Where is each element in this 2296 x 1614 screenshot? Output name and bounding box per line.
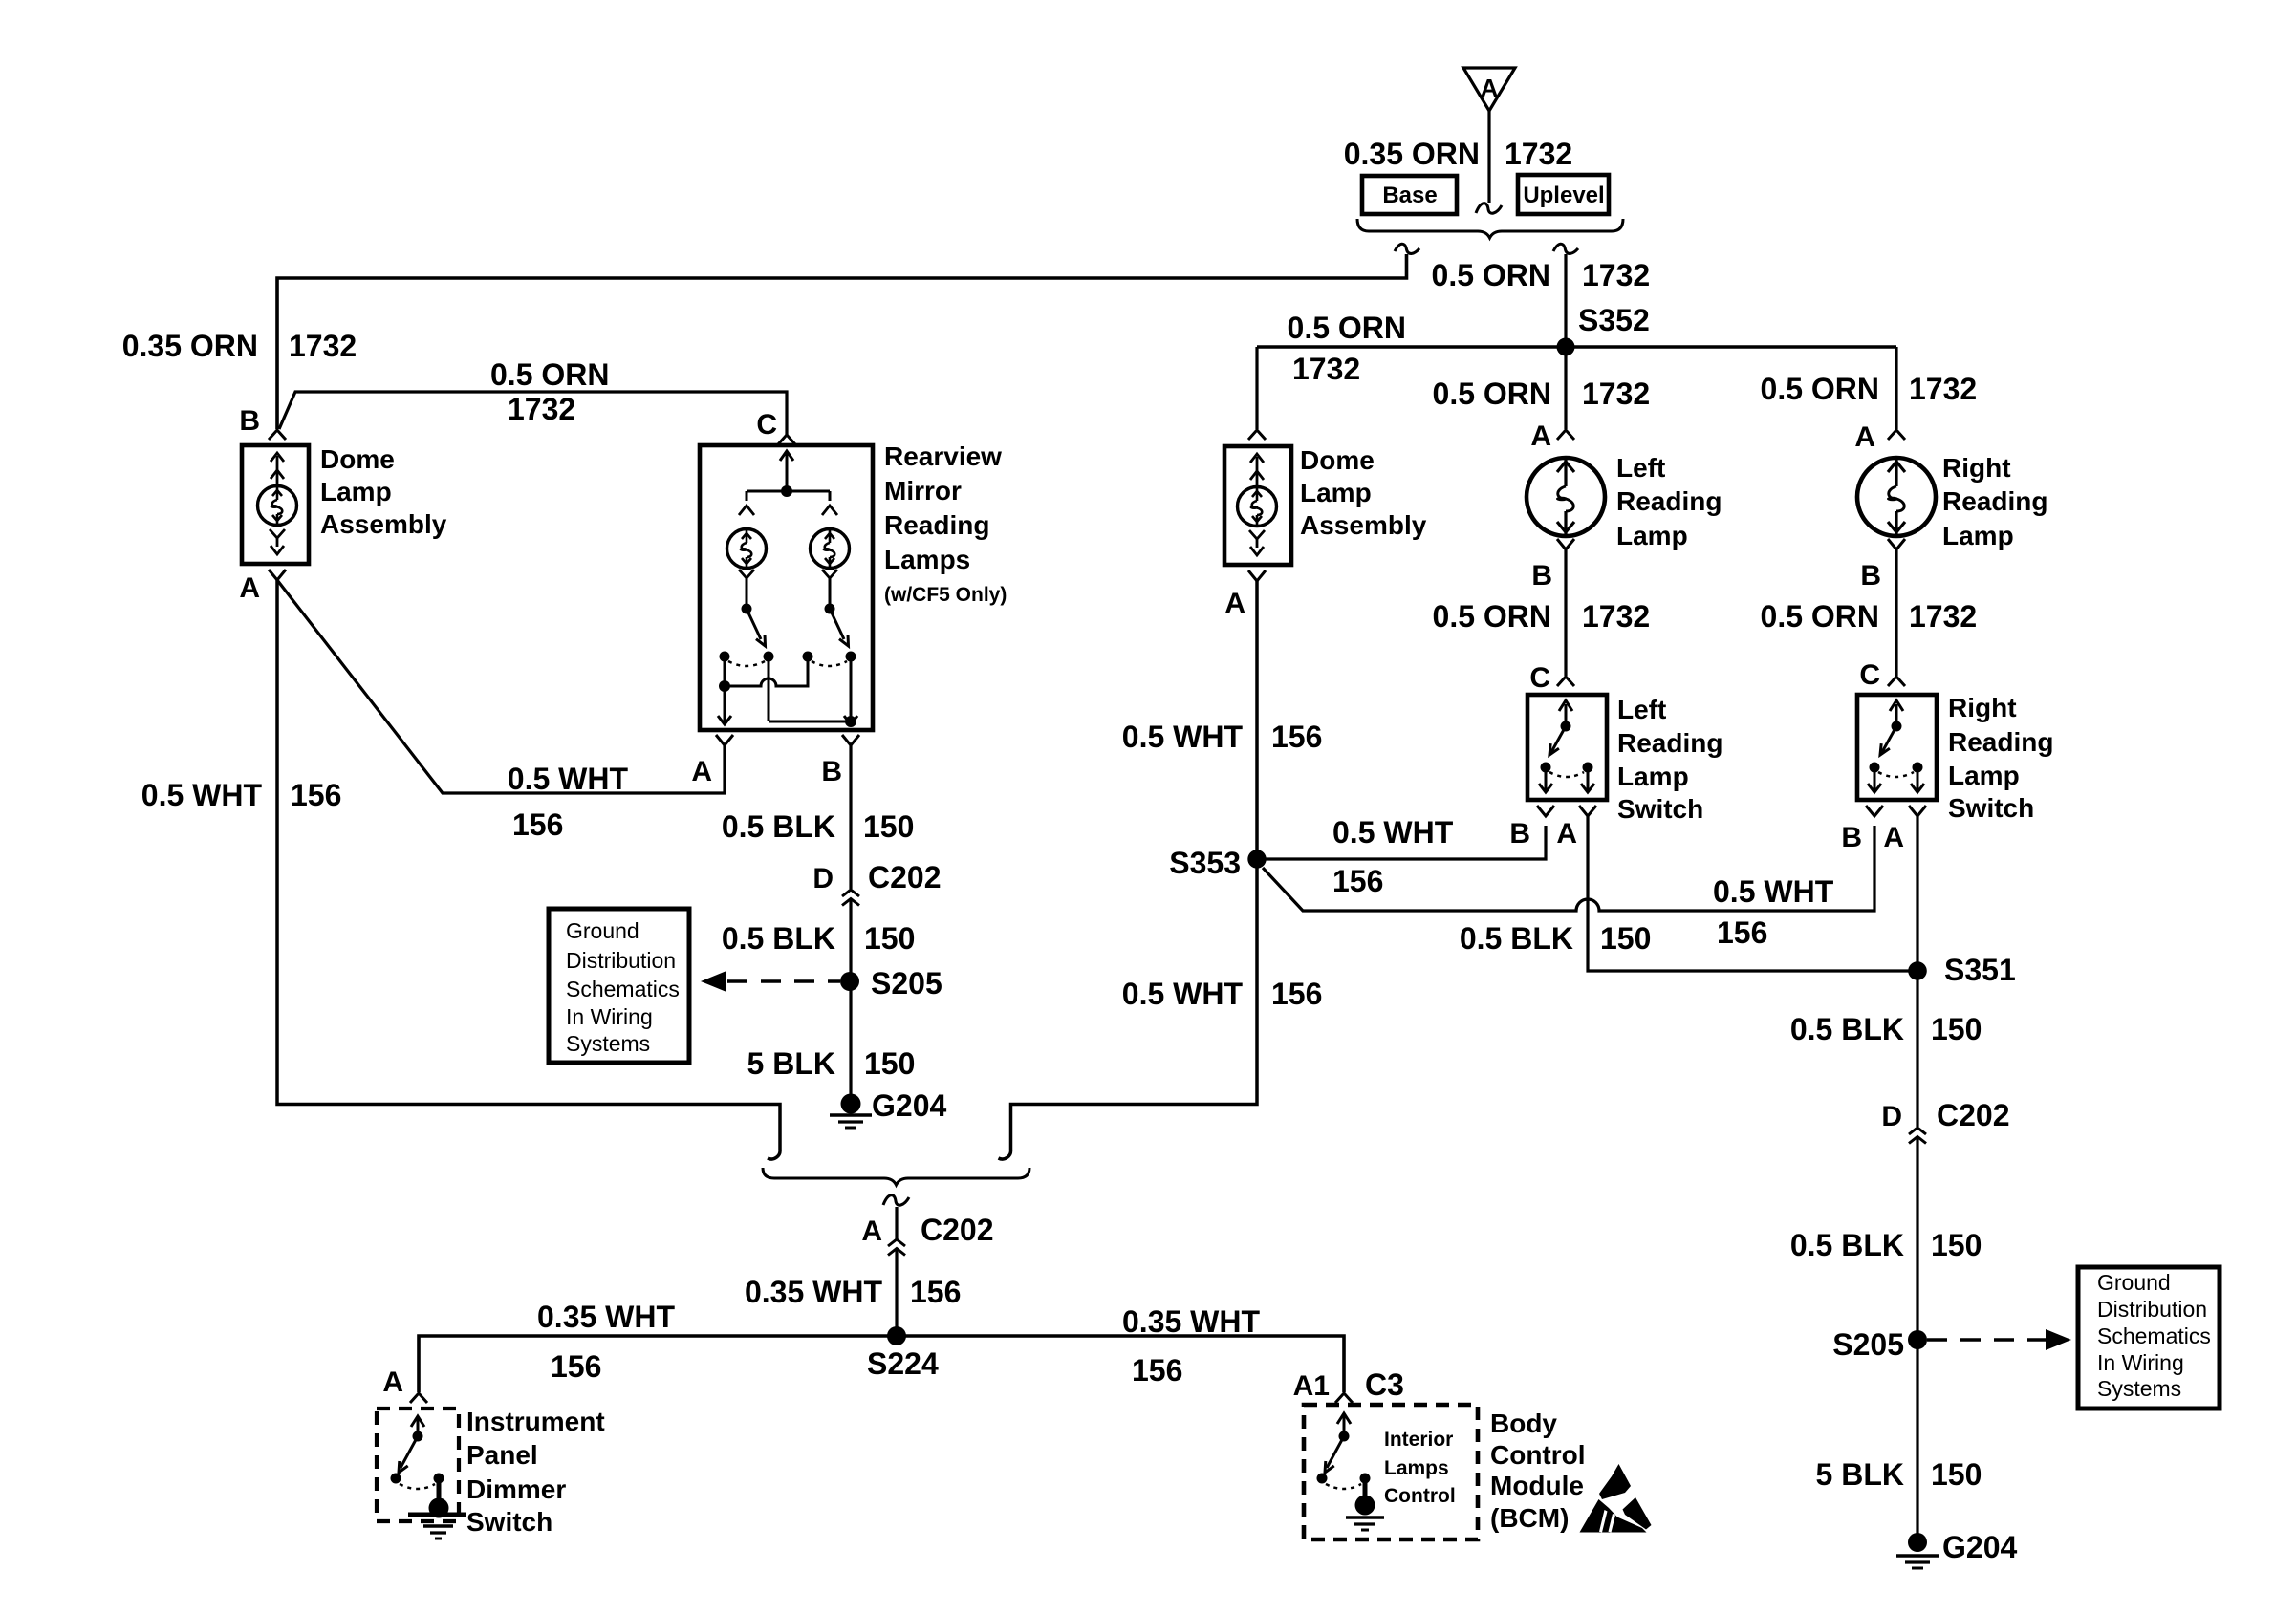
ground G204 (right) [1896, 1530, 2017, 1568]
svg-text:Left: Left [1617, 695, 1666, 724]
svg-text:S205: S205 [1832, 1327, 1904, 1362]
svg-text:1732: 1732 [289, 329, 357, 363]
dashed reference arrow to ground note (right) [1927, 1329, 2071, 1350]
svg-text:Assembly: Assembly [320, 509, 447, 539]
svg-text:G204: G204 [872, 1088, 946, 1123]
svg-text:C202: C202 [1937, 1098, 2010, 1132]
pin C (left reading lamp switch) [1529, 662, 1574, 694]
label: 0.5 ORN 1732 (right switch feed) [1761, 599, 1978, 634]
note box: Ground Distribution Schematics In Wiring Systems (left) [549, 909, 689, 1063]
svg-text:1732: 1732 [1582, 599, 1650, 634]
wire: 0.5 WHT S353 to right switch pin B [1263, 826, 1874, 911]
wire: 0.5 ORN S352 to right reading lamp [1895, 347, 1897, 429]
wire: 0.5 ORN S352 bus [1257, 345, 1896, 349]
brace: option split [1357, 219, 1623, 238]
svg-text:1732: 1732 [1582, 258, 1650, 292]
wire: 0.5 WHT S353 to left switch pin B [1257, 826, 1546, 859]
svg-text:Lamp: Lamp [1942, 521, 2014, 550]
svg-text:150: 150 [864, 1046, 915, 1081]
svg-text:Reading: Reading [884, 510, 989, 540]
pin B (mirror) [821, 735, 859, 787]
svg-text:156: 156 [910, 1275, 961, 1309]
svg-text:Interior: Interior [1384, 1429, 1453, 1451]
wire: 0.5 BLK mirror B to C202 D [849, 745, 852, 889]
svg-text:Switch: Switch [1617, 794, 1703, 824]
label: 0.5 BLK 150 (to S205) [722, 921, 916, 956]
label: Dome Lamp Assembly (left) [320, 444, 447, 539]
svg-text:156: 156 [291, 778, 341, 812]
label: Dome Lamp Assembly (right) [1300, 445, 1427, 540]
svg-text:Right: Right [1942, 453, 2011, 483]
connector C202 pin D (right chain) [1881, 1098, 2009, 1144]
instrument panel dimmer switch [377, 1409, 466, 1539]
pin B (right switch) [1841, 806, 1883, 853]
wire: 0.5 ORN S352 to dome lamp (right) [1255, 347, 1258, 429]
svg-text:156: 156 [551, 1349, 601, 1384]
wire: 0.5 ORN S352 to left reading lamp [1564, 347, 1567, 429]
svg-text:Uplevel: Uplevel [1523, 183, 1604, 208]
label: 0.5 WHT 156 (below S353) [1122, 977, 1323, 1011]
svg-text:0.5 ORN: 0.5 ORN [1432, 258, 1550, 292]
svg-text:Left: Left [1616, 453, 1665, 483]
svg-text:156: 156 [1332, 864, 1383, 898]
wire: 0.5 BLK right switch A through S351 to C202 D [1916, 816, 1918, 1127]
label: Right Reading Lamp [1942, 453, 2047, 550]
connector C202 brace and pin A (bottom) [763, 1168, 1029, 1256]
svg-text:0.5 ORN: 0.5 ORN [490, 357, 609, 392]
body control module (BCM) [1304, 1405, 1478, 1539]
svg-text:0.5 ORN: 0.5 ORN [1761, 372, 1879, 406]
svg-text:C3: C3 [1365, 1367, 1404, 1402]
svg-text:Reading: Reading [1617, 728, 1722, 758]
ground G204 (left) [830, 1088, 946, 1128]
wire: 0.35 WHT S224 to BCM [897, 1336, 1344, 1392]
svg-text:In Wiring: In Wiring [2097, 1350, 2184, 1375]
right reading lamp switch [1857, 695, 1937, 800]
svg-text:1732: 1732 [1582, 377, 1650, 411]
svg-text:Reading: Reading [1942, 486, 2047, 516]
svg-text:150: 150 [1931, 1457, 1982, 1492]
label: Rearview Mirror Reading Lamps [884, 441, 1007, 606]
svg-text:Systems: Systems [566, 1031, 650, 1056]
svg-text:C202: C202 [868, 860, 942, 894]
svg-text:C202: C202 [921, 1213, 994, 1247]
svg-text:0.5 WHT: 0.5 WHT [1122, 720, 1244, 754]
splice S352 [1557, 303, 1650, 356]
svg-text:156: 156 [1132, 1353, 1182, 1388]
svg-text:0.5 BLK: 0.5 BLK [1790, 1228, 1904, 1262]
svg-text:A: A [861, 1216, 882, 1247]
label: 0.35 ORN 1732 [1344, 137, 1572, 171]
svg-text:0.35 WHT: 0.35 WHT [745, 1275, 882, 1309]
svg-text:S353: S353 [1169, 846, 1241, 880]
svg-text:Systems: Systems [2097, 1376, 2181, 1401]
dome lamp assembly (left) [242, 445, 309, 564]
svg-text:Control: Control [1490, 1440, 1586, 1470]
label: 0.5 ORN 1732 (left switch feed) [1433, 599, 1651, 634]
svg-text:B: B [1860, 560, 1881, 592]
svg-text:Switch: Switch [466, 1507, 552, 1537]
svg-text:Schematics: Schematics [2097, 1323, 2211, 1348]
pin B (left reading lamp) [1531, 539, 1574, 592]
svg-text:B: B [1841, 822, 1862, 853]
label: 0.5 ORN 1732 (left reading lamp) [1433, 377, 1651, 411]
svg-text:Lamp: Lamp [1617, 762, 1689, 791]
svg-text:A1: A1 [1293, 1370, 1330, 1402]
svg-text:156: 156 [1717, 915, 1767, 950]
svg-text:Body: Body [1490, 1409, 1557, 1438]
label: 0.35 WHT 156 (left branch) [537, 1300, 675, 1384]
pin B (left switch) [1509, 806, 1554, 850]
svg-text:1732: 1732 [1909, 599, 1977, 634]
label: Body Control Module (BCM) [1490, 1409, 1586, 1533]
svg-text:A: A [1883, 822, 1904, 853]
wire: 0.5 WHT dome (right) through S353 to C202 [999, 581, 1258, 1159]
note box: Ground Distribution Schematics In Wiring Systems (right) [2078, 1267, 2220, 1409]
svg-text:S205: S205 [871, 966, 942, 1001]
svg-text:In Wiring: In Wiring [566, 1004, 653, 1029]
svg-text:0.5 WHT: 0.5 WHT [141, 778, 263, 812]
wire: 0.5 ORN lamp B to switch C (left) [1564, 549, 1567, 676]
svg-text:Distribution: Distribution [2097, 1297, 2207, 1322]
wire: 0.5 ORN to rearview mirror pin C [279, 392, 787, 435]
svg-text:150: 150 [1931, 1012, 1982, 1046]
label: Instrument Panel Dimmer Switch [466, 1407, 605, 1537]
svg-text:Lamp: Lamp [1300, 478, 1372, 507]
svg-text:S351: S351 [1944, 953, 2016, 987]
svg-text:1732: 1732 [1292, 352, 1360, 386]
svg-text:Control: Control [1384, 1485, 1456, 1507]
label: 0.5 BLK 150 (right, to S205) [1790, 1228, 1982, 1262]
svg-text:Panel: Panel [466, 1440, 538, 1470]
svg-text:150: 150 [1931, 1228, 1982, 1262]
label: 0.35 WHT 156 (C202 to S224) [745, 1275, 961, 1309]
svg-text:0.5 WHT: 0.5 WHT [1122, 977, 1244, 1011]
left reading lamp switch [1527, 695, 1607, 800]
svg-text:Lamp: Lamp [1948, 761, 2020, 790]
svg-text:0.5 ORN: 0.5 ORN [1433, 377, 1551, 411]
svg-text:0.5 ORN: 0.5 ORN [1288, 311, 1406, 345]
svg-text:Dome: Dome [1300, 445, 1375, 475]
svg-text:156: 156 [1271, 977, 1322, 1011]
svg-text:Lamp: Lamp [1616, 521, 1688, 550]
svg-text:D: D [1881, 1101, 1902, 1132]
wire: 0.5 ORN lamp B to switch C (right) [1895, 549, 1897, 676]
svg-text:(w/CF5 Only): (w/CF5 Only) [884, 584, 1007, 606]
svg-text:Ground: Ground [566, 918, 639, 943]
label: 0.5 BLK 150 (mirror) [722, 809, 915, 844]
svg-text:Module: Module [1490, 1471, 1584, 1500]
svg-text:Reading: Reading [1948, 727, 2053, 757]
svg-text:1732: 1732 [508, 392, 575, 426]
svg-text:Right: Right [1948, 693, 2017, 722]
dome lamp assembly (right) [1224, 446, 1291, 565]
svg-text:Distribution: Distribution [566, 948, 676, 973]
svg-text:0.5 BLK: 0.5 BLK [1790, 1012, 1904, 1046]
option tag: Base [1362, 176, 1457, 214]
svg-text:Reading: Reading [1616, 486, 1722, 516]
pin A top (dome lamp right) [1248, 430, 1266, 440]
wire: uplevel branch 0.5 ORN to S352 [1553, 244, 1578, 347]
wire: 0.5 BLK C202 to S205 (right) [1916, 1137, 1918, 1341]
wire: 0.5 BLK left switch A to S351 [1588, 816, 1917, 971]
wire: 5 BLK S205 to G204 (right) [1916, 1340, 1918, 1538]
label: 5 BLK 150 (right) [1816, 1457, 1982, 1492]
wire: 0.35 WHT S224 to dimmer switch [419, 1336, 897, 1392]
svg-text:A: A [1854, 421, 1875, 453]
wire: 0.5 WHT 156 left drop to C202 [277, 580, 780, 1159]
label: 0.5 ORN 1732 (mirror feed) [490, 357, 609, 426]
label: 0.5 BLK 150 (S351 down) [1790, 1012, 1982, 1046]
svg-text:0.5 BLK: 0.5 BLK [722, 809, 835, 844]
svg-text:Switch: Switch [1948, 793, 2034, 823]
svg-text:A: A [1556, 818, 1577, 850]
wire: base branch 0.35 ORN to dome lamp (left) [277, 244, 1419, 429]
pin A (right reading lamp) [1854, 421, 1905, 453]
label: 0.5 ORN 1732 (right reading lamp) [1761, 372, 1978, 406]
pin C (right reading lamp switch) [1859, 659, 1905, 691]
svg-text:0.5 ORN: 0.5 ORN [1433, 599, 1551, 634]
svg-text:0.35 ORN: 0.35 ORN [122, 329, 258, 363]
label: 0.5 BLK 150 (switch A) [1460, 921, 1652, 956]
label: Interior Lamps Control [1384, 1429, 1456, 1507]
svg-text:A: A [1481, 74, 1499, 102]
svg-text:Lamps: Lamps [884, 545, 970, 574]
svg-text:(BCM): (BCM) [1490, 1503, 1569, 1533]
ESD sensitivity symbol [1580, 1464, 1652, 1533]
svg-text:G204: G204 [1942, 1530, 2017, 1564]
svg-text:0.5 WHT: 0.5 WHT [508, 762, 629, 796]
svg-text:S352: S352 [1578, 303, 1650, 337]
svg-text:C: C [1859, 659, 1880, 691]
label: Right Reading Lamp Switch [1948, 693, 2053, 823]
svg-text:0.35 WHT: 0.35 WHT [1122, 1304, 1260, 1339]
svg-text:Dimmer: Dimmer [466, 1474, 566, 1504]
pin A (mirror) [691, 735, 733, 787]
svg-text:B: B [1509, 818, 1530, 850]
svg-text:Ground: Ground [2097, 1270, 2171, 1295]
pin A (dimmer switch) [382, 1367, 427, 1403]
pin A (right switch) [1883, 806, 1926, 853]
svg-text:B: B [1531, 560, 1552, 592]
svg-text:C: C [1529, 662, 1550, 694]
svg-text:5 BLK: 5 BLK [1816, 1457, 1904, 1492]
wire: 0.35 ORN 1732 from triangle [1476, 111, 1502, 213]
svg-text:S224: S224 [867, 1346, 939, 1381]
label: 0.5 WHT 156 (S353 to B) [1332, 815, 1454, 898]
connector C202 pin D (left chain) [812, 860, 941, 906]
svg-text:A: A [382, 1367, 403, 1398]
svg-text:D: D [812, 863, 834, 894]
wire: 0.5 BLK C202 to S205 [849, 899, 852, 982]
svg-text:C: C [756, 409, 777, 441]
label: 0.5 ORN 1732 (to right dome) [1288, 311, 1406, 386]
svg-text:0.5 BLK: 0.5 BLK [722, 921, 835, 956]
svg-text:Assembly: Assembly [1300, 510, 1427, 540]
wire: 0.5 WHT dome A to mirror A [277, 580, 725, 793]
label: Left Reading Lamp [1616, 453, 1722, 550]
svg-text:5 BLK: 5 BLK [747, 1046, 835, 1081]
pin C (rearview mirror) [756, 409, 795, 444]
svg-text:150: 150 [863, 809, 914, 844]
svg-text:Lamp: Lamp [320, 477, 392, 506]
rearview mirror reading lamps [700, 445, 873, 730]
splice S205 (left) [840, 966, 942, 1001]
pin A1 / C3 (BCM) [1293, 1367, 1404, 1403]
svg-text:150: 150 [1600, 921, 1651, 956]
splice S353 [1169, 846, 1266, 880]
svg-text:A: A [1530, 420, 1551, 452]
svg-text:156: 156 [1271, 720, 1322, 754]
svg-text:B: B [239, 405, 260, 437]
label: 0.35 WHT 156 (right branch) [1122, 1304, 1260, 1388]
svg-text:156: 156 [512, 807, 563, 842]
wire: 0.35 WHT C202 to S224 [895, 1249, 898, 1337]
svg-text:0.5 ORN: 0.5 ORN [1761, 599, 1879, 634]
label: 0.5 WHT 156 (to right B) [1713, 874, 1834, 950]
svg-text:150: 150 [864, 921, 915, 956]
label: 0.5 WHT 156 (left drop) [141, 778, 342, 812]
label: 5 BLK 150 [747, 1046, 916, 1081]
svg-text:0.35 ORN: 0.35 ORN [1344, 137, 1480, 171]
right reading lamp [1857, 458, 1936, 536]
svg-text:Instrument: Instrument [466, 1407, 605, 1436]
label: 0.5 ORN 1732 (uplevel branch) [1432, 258, 1651, 292]
svg-text:Rearview: Rearview [884, 441, 1002, 471]
svg-text:1732: 1732 [1909, 372, 1977, 406]
svg-text:0.35 WHT: 0.35 WHT [537, 1300, 675, 1334]
pin A (left reading lamp) [1530, 420, 1574, 452]
svg-text:Mirror: Mirror [884, 476, 962, 506]
splice S224 [867, 1326, 939, 1381]
svg-text:A: A [691, 756, 712, 787]
svg-text:1732: 1732 [1505, 137, 1572, 171]
svg-text:Dome: Dome [320, 444, 395, 474]
pin A (left switch) [1556, 806, 1596, 850]
label: Left Reading Lamp Switch [1617, 695, 1722, 824]
wire: 5 BLK S205 to G204 [849, 981, 852, 1099]
dashed reference arrow to ground note (left) [701, 971, 840, 992]
svg-text:0.5 WHT: 0.5 WHT [1713, 874, 1834, 909]
power feed triangle A [1463, 68, 1515, 111]
label: 0.35 ORN 1732 (left wire) [122, 329, 357, 363]
svg-text:B: B [821, 756, 842, 787]
splice S351 [1908, 953, 2016, 987]
left reading lamp [1527, 458, 1605, 536]
svg-text:A: A [239, 572, 260, 604]
svg-text:0.5 BLK: 0.5 BLK [1460, 921, 1573, 956]
option tag: Uplevel [1518, 175, 1609, 214]
svg-text:Lamps: Lamps [1384, 1457, 1449, 1479]
pin B (dome lamp left) [239, 405, 286, 440]
pin B (right reading lamp) [1860, 539, 1905, 592]
pin A bottom (dome lamp right) [1224, 570, 1266, 619]
svg-text:Base: Base [1382, 183, 1437, 208]
pin A (dome lamp left) [239, 570, 286, 604]
label: 0.5 WHT 156 (above S353) [1122, 720, 1323, 754]
svg-text:A: A [1224, 588, 1245, 619]
svg-text:0.5 WHT: 0.5 WHT [1332, 815, 1454, 850]
splice S205 (right) [1832, 1327, 1927, 1362]
svg-text:Schematics: Schematics [566, 977, 680, 1001]
label: 0.5 WHT 156 (diagonal run) [508, 762, 629, 842]
